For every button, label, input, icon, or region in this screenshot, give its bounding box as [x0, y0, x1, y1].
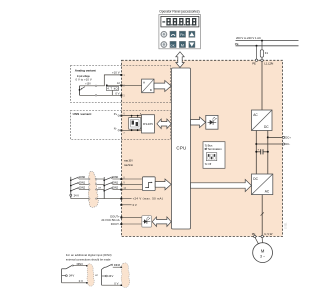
svg-text:or: or [98, 186, 101, 190]
switch DIN3 a [62, 268, 66, 270]
wire L mains line [236, 40, 299, 42]
svg-text:PE: PE [252, 62, 256, 66]
svg-text:AC: AC [265, 189, 270, 193]
svg-text:DIN2: DIN2 [112, 186, 118, 190]
0V stub [122, 204, 131, 206]
wire 24V bus left [70, 177, 72, 199]
wire P+ [121, 115, 141, 117]
svg-text:For an additional digital inpu: For an additional digital input (DIN3) [66, 253, 112, 257]
wire PE line [236, 45, 299, 47]
svg-text:DOUT-: DOUT- [111, 222, 120, 226]
junction DC- [255, 143, 257, 145]
switch DIN3 b [105, 266, 106, 268]
three-phase slash [261, 212, 264, 215]
switch DIN1 remote [70, 185, 72, 187]
A/D converter [142, 79, 154, 93]
CPU U1 [172, 68, 191, 229]
double arrow RS485 to CPU [157, 119, 171, 129]
footnote diagram 1 [62, 262, 88, 284]
svg-text:DC-: DC- [285, 142, 290, 146]
switch DIN2 remote [70, 190, 72, 192]
arrow CPU to inverter [191, 179, 252, 191]
digital input stage (schmitt) [142, 177, 155, 191]
svg-text:external connections should be: external connections should be made [66, 257, 111, 261]
svg-text:0 V: 0 V [115, 92, 119, 96]
switch DIN2 local [103, 190, 105, 192]
cable cloud [88, 172, 98, 208]
terminal PE bottom [254, 235, 256, 237]
arrow CPU to LED [191, 117, 206, 128]
svg-text:Input voltage: Input voltage [77, 74, 90, 78]
svg-text:DIN3: DIN3 [114, 263, 120, 267]
wire pot top to +10V [80, 75, 122, 86]
svg-text:or: or [95, 273, 98, 277]
inverter DC/AC [252, 174, 273, 195]
terminal U V W [261, 235, 263, 237]
wire PE to motor [255, 238, 259, 245]
svg-text:USS variant: USS variant [73, 112, 92, 116]
wire left vertical [61, 269, 63, 283]
svg-text:RS485: RS485 [143, 122, 153, 126]
wire DC+ rail [267, 131, 269, 175]
svg-text:24 V: 24 V [108, 274, 113, 278]
svg-text:0 V to +10 V: 0 V to +10 V [76, 78, 92, 82]
svg-text:DIN2: DIN2 [79, 186, 85, 190]
wire inverter output [261, 195, 263, 237]
operator panel U-BOP [159, 9, 201, 49]
terminal DOUT- [120, 223, 122, 225]
24V source a [62, 275, 66, 277]
inverter main block (frequency converter) [122, 60, 283, 236]
junction DC+ [267, 136, 269, 138]
svg-text:DC+: DC+ [285, 136, 291, 140]
svg-text:200 V to 240 V 1 AC: 200 V to 240 V 1 AC [236, 36, 261, 40]
svg-text:+10V: +10V [85, 83, 91, 85]
capacitor C1 dc link [255, 147, 269, 154]
terminal 0V [120, 204, 122, 206]
terminal PE top [255, 59, 257, 61]
svg-text:Fn: Fn [180, 33, 184, 37]
wire PE drop [256, 46, 258, 61]
svg-text:Analog variant: Analog variant [75, 69, 96, 73]
arrow A/D to CPU [154, 81, 171, 92]
svg-text:Operator Panel (accessories): Operator Panel (accessories) [159, 9, 199, 13]
wire 24V bus local [103, 177, 105, 199]
svg-text:M: M [261, 248, 265, 253]
arrow DIN stage to CPU [155, 179, 171, 190]
analog variant dashed box [71, 66, 171, 103]
cable cloud small 2 [121, 263, 130, 288]
terminal DIN0 [120, 178, 122, 180]
svg-text:⇅ Off: ⇅ Off [205, 162, 212, 166]
svg-text:DC: DC [253, 177, 258, 181]
svg-text:DIN0: DIN0 [79, 175, 85, 179]
svg-text:⇄ Termination: ⇄ Termination [205, 147, 223, 151]
svg-text:24 V: 24 V [74, 193, 80, 197]
svg-text:CPU: CPU [176, 145, 186, 150]
svg-text:+24 V (max. 50 mA): +24 V (max. 50 mA) [133, 197, 163, 201]
wire N- [121, 129, 141, 131]
svg-text:N-: N- [114, 127, 117, 131]
switch DIN0 local [103, 180, 105, 182]
wire bottom b [102, 284, 121, 286]
svg-text:3 ~: 3 ~ [260, 254, 265, 258]
wires DIN into input stage [121, 178, 142, 180]
cloud pass-through circles [89, 178, 90, 179]
svg-text:U, V, W: U, V, W [264, 232, 273, 236]
terminal L1 L2/N [261, 59, 263, 61]
svg-text:DC: DC [264, 125, 269, 129]
wire mains into rectifier [261, 62, 263, 111]
fuse F1 [260, 50, 263, 57]
wire DC- stub [256, 143, 283, 145]
svg-text:+10 V: +10 V [112, 70, 120, 74]
svg-text:0 V: 0 V [114, 281, 118, 285]
terminal DIN1 [120, 183, 122, 185]
switch DIN1 local [103, 185, 105, 187]
wire bottom a [62, 282, 87, 284]
svg-text:P+: P+ [114, 112, 118, 116]
svg-text:DIN3: DIN3 [77, 262, 83, 266]
wire AI [107, 84, 143, 86]
wire UVW to motor [261, 238, 263, 243]
terminal +24V [120, 198, 122, 200]
svg-text:F1: F1 [265, 51, 269, 55]
svg-text:PE: PE [235, 42, 239, 46]
wire DC+ stub [268, 136, 283, 138]
bus termination legend box [203, 142, 225, 169]
bus termination switch S1 [129, 115, 141, 131]
24V source b [102, 275, 106, 277]
wires DOUT [121, 216, 141, 218]
wire 24V return [71, 198, 89, 200]
svg-text:24 V: 24 V [69, 274, 74, 278]
+24V output stub [122, 198, 131, 200]
rectifier AC/DC [252, 110, 273, 131]
svg-text:AI: AI [117, 81, 120, 85]
motor M1 [253, 243, 273, 263]
LED indicator D1 [206, 115, 218, 129]
svg-text:DIN1: DIN1 [112, 180, 118, 184]
footnote diagram 2 [102, 263, 123, 286]
wire L1 drop [261, 41, 263, 50]
button row 1 [161, 31, 195, 37]
panel-CPU double arrow link [176, 52, 184, 68]
terminal N- [118, 130, 120, 132]
24V source [70, 194, 72, 196]
svg-text:DIN1: DIN1 [79, 180, 85, 184]
svg-text:G 001: G 001 [285, 222, 288, 229]
terminal DOUT+ [120, 216, 122, 218]
svg-text:AC: AC [253, 113, 258, 117]
potentiometer R2 [79, 86, 85, 96]
wire DC- rail [255, 131, 257, 175]
svg-text:0 V: 0 V [79, 279, 83, 283]
svg-text:L1, L2/N: L1, L2/N [264, 62, 273, 66]
switch DIN0 remote [70, 180, 72, 182]
optocoupler output stage [142, 216, 152, 227]
button row 2 [161, 41, 195, 47]
double arrow DOUT to CPU [152, 217, 171, 227]
svg-text:0 V: 0 V [133, 203, 137, 207]
terminal DC- [282, 143, 284, 145]
terminal DC+ [282, 136, 284, 138]
RS485 transceiver [142, 115, 155, 133]
junction on PE line [256, 45, 258, 47]
svg-text:4.7 kΩ: 4.7 kΩ [107, 87, 117, 91]
external switch bank (remote) [70, 175, 89, 199]
terminal P+ [118, 115, 120, 117]
terminal dots a [86, 265, 88, 267]
svg-text:max. 5 mA: max. 5 mA [124, 164, 133, 167]
junction on L line [261, 40, 263, 42]
svg-text:DIN0: DIN0 [112, 175, 118, 179]
terminal dots b [121, 267, 123, 269]
cable cloud small 1 [87, 264, 94, 286]
svg-text:M: M [181, 44, 184, 48]
svg-text:max. 30 V: max. 30 V [124, 160, 133, 163]
svg-text:A: A [143, 81, 145, 85]
wire left vertical b [102, 267, 105, 285]
wire pot bottom to 0V [80, 94, 122, 96]
external switch bank (local) [97, 175, 122, 199]
USS variant dashed box [71, 111, 171, 140]
wires through to local bus [97, 178, 104, 180]
terminal DIN2 [120, 189, 122, 191]
terminal dots analog [120, 74, 122, 76]
svg-text:PE: PE [252, 232, 256, 236]
resistor 4.7k [106, 86, 118, 90]
